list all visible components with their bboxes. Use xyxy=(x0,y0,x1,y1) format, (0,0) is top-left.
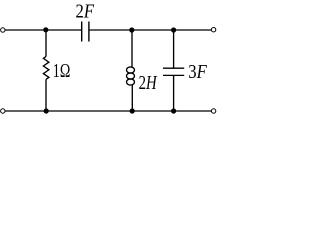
resistor R 1ohm branch top lead wire xyxy=(45,30,47,57)
svg-text:2H: 2H xyxy=(139,72,158,94)
capacitor C2 3F top lead wire xyxy=(173,30,175,68)
resistor R 1ohm zigzag xyxy=(43,57,49,80)
wire top-right segment xyxy=(89,29,211,31)
capacitor C1 2F plates xyxy=(81,22,83,42)
junction node bottom C xyxy=(171,108,176,113)
svg-text:2F: 2F xyxy=(76,0,95,22)
svg-text:1Ω: 1Ω xyxy=(53,60,71,82)
wire top-left segment xyxy=(5,29,82,31)
junction node top L xyxy=(129,27,134,32)
terminal bottom-right xyxy=(211,109,215,113)
capacitor C2 3F plates xyxy=(163,67,184,69)
inductor L 2H coil loops xyxy=(127,67,135,73)
svg-text:3F: 3F xyxy=(188,61,207,83)
inductor L 2H top lead wire xyxy=(131,30,133,67)
terminal top-right xyxy=(211,28,215,32)
junction node top R xyxy=(43,27,48,32)
capacitor C2 3F bottom lead wire xyxy=(173,75,175,111)
terminal bottom-left xyxy=(1,109,5,113)
junction node top C xyxy=(171,27,176,32)
junction node bottom L xyxy=(130,108,135,113)
terminal top-left xyxy=(1,28,5,32)
junction node bottom R xyxy=(44,108,49,113)
inductor L 2H bottom lead wire xyxy=(131,85,133,111)
wire bottom xyxy=(5,110,211,112)
resistor R 1ohm branch bottom lead wire xyxy=(45,79,47,111)
